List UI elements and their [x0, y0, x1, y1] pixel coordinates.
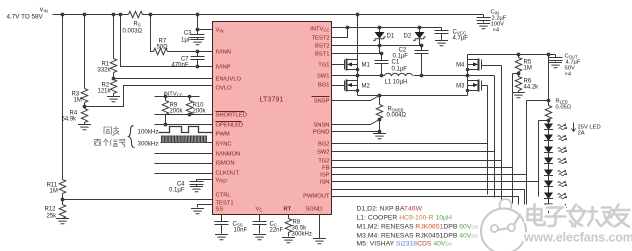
char fa: [568, 205, 586, 227]
node INTVCC pullup bus: [155, 92, 200, 99]
wire OPENLED line: [155, 124, 213, 126]
LED string D3..D10: [544, 121, 567, 211]
svg-text:44.2k: 44.2k: [524, 85, 540, 91]
svg-text:C3: C3: [184, 31, 192, 37]
svg-text:10nF: 10nF: [234, 228, 248, 234]
svg-text:BST2: BST2: [315, 44, 330, 50]
svg-text:D2: D2: [404, 34, 412, 40]
node BST1/C1: [380, 52, 384, 56]
svg-text:www.elecfans.com: www.elecfans.com: [523, 231, 632, 245]
node PGND junction: [378, 130, 382, 134]
wire SW2 riser: [332, 76, 495, 198]
svg-text:ISMON: ISMON: [216, 161, 235, 167]
svg-text:200k: 200k: [193, 109, 207, 115]
svg-text:M3,M4: RENESAS RJK0451DPB 40VD: M3,M4: RENESAS RJK0451DPB 40VDS: [357, 233, 479, 240]
svg-text:TG2: TG2: [318, 159, 329, 165]
char zi: [546, 208, 566, 227]
svg-text:M2: M2: [362, 84, 371, 90]
svg-text:CTRL: CTRL: [216, 193, 232, 199]
wire VIN top rail: [53, 14, 484, 16]
wire TEST1 to ground: [191, 205, 213, 214]
svg-text:SYNC: SYNC: [216, 142, 232, 148]
IC U1 pin name overlines: [216, 97, 330, 122]
wire ISP to RLED top: [332, 101, 549, 205]
char you: [611, 205, 630, 227]
svg-text:2A: 2A: [578, 131, 585, 137]
svg-text:L1: COOPER HC9-100-R 10µH: L1: COOPER HC9-100-R 10µH: [357, 215, 452, 222]
svg-text:54.9k: 54.9k: [62, 117, 78, 123]
wire column to R3: [84, 15, 86, 89]
svg-text:RT: RT: [284, 207, 292, 213]
svg-text:SNSP: SNSP: [314, 99, 330, 105]
svg-text:1µF: 1µF: [181, 38, 192, 44]
svg-text:VIN: VIN: [40, 8, 48, 14]
svg-text:TG1: TG1: [318, 63, 329, 69]
node D1 on BST2 row: [378, 44, 382, 48]
svg-text:IVINMON: IVINMON: [216, 152, 241, 158]
resistor R3 1M: [72, 89, 88, 107]
svg-text:CLKOUT: CLKOUT: [216, 171, 240, 177]
node ISP tap: [547, 99, 551, 103]
node CTRL divider junction: [61, 198, 65, 202]
waveform SYNC 300kHz: [161, 136, 213, 143]
resistor R1 332k: [98, 59, 117, 79]
svg-text:0.003Ω: 0.003Ω: [123, 29, 143, 35]
wire SNSN kelvin: [332, 120, 380, 125]
wire EN/UVLO to IC: [114, 78, 213, 80]
svg-text:4.7µF: 4.7µF: [453, 36, 469, 42]
wire BST1 row: [332, 53, 382, 55]
svg-text:IVINP: IVINP: [216, 65, 231, 71]
svg-text:1M: 1M: [74, 98, 82, 104]
ground below R2: [107, 97, 120, 102]
IC U1 LT3791 body: [213, 22, 332, 215]
wire TG2 to M4 gate: [332, 66, 502, 201]
wire PGND tie: [332, 131, 380, 133]
svg-text:0.004Ω: 0.004Ω: [387, 113, 407, 119]
node VIN pin tap: [196, 28, 200, 32]
diode D2 (BST2 supply): [404, 28, 426, 46]
transistor M3 (bottom boost NMOS, mirrored): [456, 76, 481, 96]
svg-text:300kHz: 300kHz: [292, 232, 312, 238]
capacitor CC 22nF: [253, 215, 284, 240]
svg-text:R12: R12: [45, 207, 57, 213]
wire IVINN branch: [151, 15, 213, 52]
svg-text:SGND: SGND: [306, 207, 323, 213]
char fa: [568, 205, 586, 227]
wire VREF: [197, 180, 213, 182]
svg-text:L1 10µH: L1 10µH: [385, 80, 408, 86]
node RLED drop: [547, 53, 551, 57]
wire FB to divider: [332, 74, 519, 204]
svg-text:M4: M4: [456, 63, 465, 69]
capacitor COUT 4.7uF 50V x4: [549, 54, 581, 78]
wire BG2 to M3 gate: [332, 86, 488, 195]
wire VIN drop to M1 drain: [357, 15, 359, 60]
wire IVINMON stub: [155, 153, 213, 155]
wire SNSP kelvin: [332, 96, 380, 101]
IC U1 pin labels left: [216, 28, 247, 213]
transistor M1 (top buck NMOS): [332, 59, 371, 76]
char shao: [588, 207, 612, 226]
svg-text:50Ω: 50Ω: [157, 45, 169, 51]
char shao: [588, 207, 612, 226]
resistor R6 44.2k: [512, 77, 539, 98]
node TEST2/INTVCC: [346, 26, 350, 30]
svg-text:1M: 1M: [524, 66, 532, 72]
svg-text:PGND: PGND: [313, 130, 330, 136]
capacitor CIN 2.2uF 100V x4: [477, 10, 507, 34]
IC U1 pin labels bottom: [256, 207, 323, 213]
svg-text:SS: SS: [216, 207, 224, 213]
svg-text:22nF: 22nF: [270, 228, 284, 234]
svg-text:M5: VISHAY Si2318CDS 40VDS: M5: VISHAY Si2318CDS 40VDS: [357, 241, 453, 248]
wire SW2 node row: [414, 75, 495, 77]
wire SW1 row: [332, 75, 385, 77]
wire VOUT to RLED: [548, 55, 550, 106]
node BST2/C2: [420, 44, 424, 48]
wire ISN to RLED bottom: [332, 121, 549, 197]
wire BST2 row: [332, 45, 422, 47]
svg-text:SW1: SW1: [317, 74, 330, 80]
char zi: [546, 208, 566, 227]
resistor RS 0.003ohm (input sense): [123, 11, 149, 34]
svg-text:OPENLED: OPENLED: [216, 123, 244, 129]
node D2 anode: [418, 26, 422, 30]
svg-text:VC: VC: [256, 207, 263, 213]
node C7 top: [196, 50, 200, 54]
wire CLKOUT stub: [155, 173, 213, 175]
wire INTVCC row: [332, 27, 442, 29]
svg-text:25k: 25k: [47, 214, 58, 220]
svg-text:300kHz: 300kHz: [138, 141, 159, 148]
svg-text:M3: M3: [456, 84, 465, 90]
resistor R12 25k: [45, 200, 66, 220]
wire column to R1: [113, 15, 115, 59]
svg-text:0.1µF: 0.1µF: [169, 188, 185, 194]
svg-text:0.1µF: 0.1µF: [392, 67, 408, 73]
resistor RSNSB 0.004ohm: [373, 94, 407, 139]
transistor M4 (top boost NMOS, mirrored): [456, 55, 481, 76]
resistor R8 36.5k 300kHz: [282, 215, 312, 243]
svg-text:RS: RS: [134, 22, 141, 28]
node R1/R2 junction: [112, 77, 116, 81]
node C2 bottom on SW2: [420, 74, 424, 78]
capacitor CVCC 4.7uF: [435, 28, 469, 46]
wire ISMON stub: [155, 163, 213, 165]
svg-text:470nF: 470nF: [171, 63, 188, 69]
wire PWMOUT to M5 gate: [332, 197, 519, 205]
svg-text:100kHz: 100kHz: [138, 129, 159, 136]
svg-text:332k: 332k: [98, 68, 112, 74]
annotation sync two-signals (chinese): [94, 126, 158, 148]
svg-text:BG1: BG1: [318, 83, 330, 89]
node R9 on OPENLED: [164, 123, 168, 127]
resistor R2 121k: [98, 79, 117, 97]
node FB divider: [517, 72, 521, 76]
svg-text:×4: ×4: [565, 72, 572, 78]
capacitor C2 0.1uF: [393, 46, 429, 76]
svg-text:OVLO: OVLO: [216, 86, 233, 92]
resistor R5 1M: [515, 53, 532, 77]
svg-text:D1: D1: [387, 34, 395, 40]
capacitor CSS 10nF: [215, 215, 248, 240]
node C7 bottom: [196, 65, 200, 69]
svg-text:ISP: ISP: [320, 173, 329, 179]
resistor R4 54.9k: [62, 107, 88, 125]
svg-text:VIN: VIN: [216, 28, 224, 34]
node D1 anode: [378, 26, 382, 30]
capacitor C3 1uF: [181, 15, 204, 45]
wire IVINP column: [121, 15, 213, 67]
svg-text:C1: C1: [392, 60, 400, 66]
ground below R12: [56, 219, 69, 224]
watermark chinese text (hand-drawn strokes): [528, 204, 630, 227]
wire LED return to M5 (mostly hidden): [548, 210, 550, 215]
svg-text:D1,D2: NXP BAT46W: D1,D2: NXP BAT46W: [357, 206, 423, 213]
wire to VIN pin: [198, 29, 213, 31]
resistor R7 50ohm: [154, 39, 169, 55]
ground below R4: [78, 125, 91, 130]
node junctions on VIN rail: [61, 13, 360, 17]
svg-text:FB: FB: [322, 166, 330, 172]
svg-text:200k: 200k: [170, 109, 184, 115]
wire M2/M3 source sense row: [358, 95, 468, 97]
char you: [611, 205, 630, 227]
svg-text:×4: ×4: [493, 28, 500, 34]
wire VOUT row: [468, 54, 556, 56]
resistor R10 200k: [186, 97, 206, 115]
svg-text:VREF: VREF: [216, 178, 229, 184]
capacitor C1 0.1uF: [375, 54, 408, 76]
char dian: [528, 204, 545, 225]
notes: component table: [357, 206, 479, 248]
svg-text:EN/UVLO: EN/UVLO: [216, 77, 242, 83]
char dian: [528, 204, 545, 225]
svg-text:M1: M1: [362, 63, 371, 69]
node SW1 junctions: [356, 74, 360, 78]
brace: [129, 126, 135, 148]
annotation 25V LED 2A: [572, 123, 601, 137]
wire column to R11: [62, 15, 64, 180]
watermark elecfans logo: [481, 199, 526, 251]
svg-text:1M: 1M: [50, 189, 58, 195]
node VIN: input supply label: [7, 8, 48, 21]
node M4 source / SW2 row: [466, 74, 470, 78]
svg-text:0.05Ω: 0.05Ω: [556, 105, 572, 111]
node ISN tap / LED string top: [547, 119, 551, 123]
svg-text:ISN: ISN: [320, 180, 330, 186]
capacitor C4 0.1uF: [169, 182, 203, 194]
svg-text:IVINN: IVINN: [216, 50, 231, 56]
svg-text:BST1: BST1: [315, 52, 330, 58]
svg-text:PWM: PWM: [216, 132, 230, 138]
capacitor C7 470nF: [171, 52, 204, 69]
svg-text:SW2: SW2: [317, 150, 330, 156]
svg-text:M1,M2: RENESAS RJK0651DPB 60VG: M1,M2: RENESAS RJK0651DPB 60VGS: [357, 224, 479, 231]
node R3/R4 junction: [83, 105, 87, 109]
IC U1 pin labels right: [303, 27, 330, 200]
resistor R11 1M: [47, 180, 66, 200]
svg-text:LT3791: LT3791: [260, 95, 284, 104]
svg-text:BG2: BG2: [318, 142, 330, 148]
svg-text:TEST2: TEST2: [311, 36, 329, 42]
waveform PWM 100kHz: [159, 127, 213, 133]
svg-text:INTVCC: INTVCC: [310, 27, 329, 33]
svg-text:SNSN: SNSN: [313, 123, 329, 129]
resistor RLED 0.05ohm: [545, 99, 571, 121]
transistor M2 (bottom buck NMOS): [332, 76, 371, 96]
wire OVLO route: [85, 86, 213, 107]
wire SHORTLED line: [155, 114, 213, 116]
node R10 on SHORTLED: [188, 113, 192, 117]
wire SGND to ground: [313, 215, 326, 244]
svg-text:4.7V TO 58V: 4.7V TO 58V: [7, 14, 44, 21]
svg-text:SHORTLED: SHORTLED: [216, 113, 247, 119]
svg-text:121k: 121k: [98, 89, 112, 95]
wire aux row to M5 area: [332, 190, 525, 205]
wire TEST2 tie: [332, 28, 348, 38]
diode D1 (BST1 supply): [373, 28, 394, 54]
svg-text:PWMOUT: PWMOUT: [303, 194, 330, 200]
inductor L1 10uH: [385, 73, 413, 85]
wire CTRL to IC: [63, 199, 213, 201]
resistor R9 200k: [162, 97, 183, 125]
